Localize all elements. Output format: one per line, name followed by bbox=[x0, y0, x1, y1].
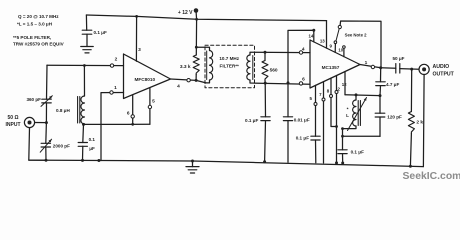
+12V terminal bbox=[178, 8, 198, 19]
node rail input-cap bbox=[81, 159, 84, 162]
wire pin5/6 bus bbox=[84, 123, 150, 125]
svg-text:6: 6 bbox=[302, 77, 305, 83]
wire pin1 bbox=[101, 93, 124, 161]
node pin2 rail bbox=[335, 161, 338, 164]
pin 1 circle bbox=[365, 60, 375, 69]
svg-text:See Note 2: See Note 2 bbox=[345, 33, 368, 38]
svg-text:TRW #25579 OR EQUIV: TRW #25579 OR EQUIV bbox=[13, 42, 65, 47]
node 560 top bbox=[264, 51, 267, 54]
svg-text:*L = 1.5 – 3.0 μH: *L = 1.5 – 3.0 μH bbox=[17, 21, 53, 26]
wire 0.1uF drop bbox=[264, 83, 266, 117]
svg-text:0.1 μF: 0.1 μF bbox=[351, 150, 364, 155]
wire tank bottom bus bbox=[343, 135, 381, 137]
capacitor 360pF variable bbox=[26, 96, 52, 107]
svg-text:3.3 k: 3.3 k bbox=[180, 64, 191, 70]
wire junction down bbox=[45, 123, 48, 144]
svg-text:2 k: 2 k bbox=[416, 119, 423, 125]
wire audio to cap bbox=[381, 67, 396, 70]
wire ground rail bbox=[29, 160, 423, 167]
op-amp MFC8010 bbox=[124, 54, 171, 99]
svg-text:MC1357: MC1357 bbox=[322, 65, 340, 70]
wire 3.3k bottom lead bbox=[195, 75, 197, 81]
filter box dashed bbox=[205, 45, 255, 87]
wire tank top bbox=[345, 94, 380, 97]
wire input gnd return bbox=[29, 128, 46, 161]
node rail center bbox=[191, 160, 194, 163]
pin 8 leg bbox=[327, 78, 337, 126]
node pin2-coil bbox=[83, 64, 86, 67]
watermark bbox=[403, 171, 460, 182]
svg-text:120 pF: 120 pF bbox=[387, 115, 402, 120]
ground (top left) bbox=[81, 47, 94, 53]
wire 0.1uF to rail bbox=[264, 121, 267, 162]
svg-text:12: 12 bbox=[342, 82, 347, 87]
node coil bottom bbox=[82, 123, 85, 126]
wire 3.3k top lead bbox=[195, 19, 197, 55]
svg-text:FILTER**: FILTER** bbox=[220, 64, 240, 69]
svg-text:+ 12 V: + 12 V bbox=[178, 10, 193, 16]
audio connector bbox=[419, 64, 429, 74]
svg-text:OUTPUT: OUTPUT bbox=[433, 72, 455, 78]
pin 10 stub bbox=[338, 46, 345, 57]
inductor L quad (variable) bbox=[346, 95, 366, 131]
node tank bottom left bbox=[341, 135, 344, 138]
wire cap to connector bbox=[400, 68, 419, 71]
pin 5 stub bbox=[148, 88, 155, 125]
wire pin3 drop bbox=[135, 16, 137, 61]
wire tank coil bottom bbox=[343, 126, 357, 150]
svg-text:50 Ω: 50 Ω bbox=[8, 115, 19, 121]
pin 12 leg bbox=[342, 72, 347, 95]
svg-text:4.7 μF: 4.7 μF bbox=[386, 82, 399, 87]
wire pin5 cap to rail bbox=[315, 140, 317, 163]
capacitor 0.1uF (IF) bbox=[245, 117, 270, 123]
wire coil top bbox=[83, 66, 85, 97]
svg-text:0.1 μF: 0.1 μF bbox=[245, 118, 258, 123]
wire 2000pF bottom bbox=[45, 147, 47, 160]
capacitor 0.1uF (tank) bbox=[338, 150, 364, 155]
pin 2 leg bbox=[335, 76, 341, 163]
svg-text:4: 4 bbox=[302, 47, 305, 53]
svg-text:2000 pF: 2000 pF bbox=[53, 144, 70, 149]
wire tank cap to rail bbox=[342, 154, 344, 163]
inductor 0.8uH bbox=[56, 96, 85, 124]
pin 14 label bbox=[309, 33, 314, 38]
capacitor 2000pF variable bbox=[40, 139, 70, 152]
svg-text:2: 2 bbox=[115, 57, 118, 63]
node pin8-pin2 bbox=[335, 125, 338, 128]
node input junction bbox=[45, 121, 48, 124]
node pin14 top bbox=[312, 29, 315, 32]
capacitor 0.1uF (input) bbox=[78, 137, 95, 151]
node bus 0.01uF bbox=[287, 81, 290, 84]
svg-text:MFC8010: MFC8010 bbox=[135, 77, 156, 82]
wire pin4 out bbox=[171, 79, 197, 80]
node pin6 join bbox=[131, 123, 134, 126]
node 2000pF gnd bbox=[45, 159, 48, 162]
capacitor 120pF bbox=[375, 96, 402, 137]
node tank right top bbox=[379, 94, 382, 97]
wire 0.01uF to rail bbox=[287, 121, 289, 163]
ground symbol (center) bbox=[186, 161, 199, 173]
node 2k top bbox=[410, 68, 413, 71]
input connector bbox=[6, 115, 35, 128]
capacitor 4.7uF bbox=[376, 68, 400, 96]
filter input winding bbox=[207, 51, 213, 81]
svg-text:0.01 μF: 0.01 μF bbox=[294, 117, 310, 122]
wire filter out bottom bbox=[250, 80, 310, 84]
resistor 3.3k bbox=[180, 55, 199, 75]
pin 4 wire circle bbox=[299, 47, 305, 55]
svg-text:0.1 μF: 0.1 μF bbox=[296, 136, 309, 141]
svg-text:*: * bbox=[347, 107, 349, 113]
svg-text:5: 5 bbox=[152, 99, 155, 105]
filter output winding bbox=[247, 55, 253, 80]
svg-text:4: 4 bbox=[177, 84, 180, 90]
pin 6 stub bbox=[127, 95, 135, 124]
svg-text:INPUT: INPUT bbox=[6, 122, 21, 128]
capacitor 0.1uF (pin5) bbox=[296, 136, 320, 141]
resistor 560 bbox=[262, 52, 278, 83]
wire audio gnd return bbox=[422, 75, 425, 167]
pin 7 leg bbox=[319, 82, 325, 163]
see note 2 label bbox=[345, 33, 368, 38]
svg-text:10.7 MHz: 10.7 MHz bbox=[219, 56, 239, 61]
svg-text:0.1 μF: 0.1 μF bbox=[94, 30, 107, 35]
svg-text:560: 560 bbox=[270, 68, 278, 74]
wire pin14 route bbox=[288, 30, 314, 117]
svg-text:1: 1 bbox=[365, 60, 368, 66]
pin 6 wire circle bbox=[299, 77, 305, 86]
svg-text:14: 14 bbox=[309, 33, 314, 38]
pin 13 drop bbox=[320, 21, 327, 48]
wire filter in top bbox=[196, 47, 209, 50]
node rail-3.3k bbox=[195, 18, 198, 21]
IC MC1357 bbox=[310, 40, 360, 88]
node tank coil top bbox=[355, 93, 358, 96]
wire cap to ground bbox=[86, 34, 88, 46]
svg-text:3: 3 bbox=[138, 47, 141, 53]
svg-text:0.1: 0.1 bbox=[89, 137, 96, 142]
pin 9 switch bbox=[329, 21, 381, 68]
svg-text:10: 10 bbox=[338, 48, 343, 53]
node pin4-3.3k bbox=[195, 79, 198, 82]
svg-text:6: 6 bbox=[127, 111, 130, 117]
wire cap to rail bbox=[82, 146, 84, 160]
node 3.3k top tap bbox=[195, 46, 198, 49]
svg-text:**5 POLE FILTER,: **5 POLE FILTER, bbox=[13, 35, 51, 40]
svg-text:Q = 20 @ 10.7 MHz: Q = 20 @ 10.7 MHz bbox=[18, 14, 59, 19]
node tank rail bbox=[341, 162, 344, 165]
pin 2 circle bbox=[110, 57, 117, 68]
note text 5 pole filter bbox=[13, 35, 65, 47]
svg-text:L: L bbox=[346, 113, 349, 118]
node rail IF-cap bbox=[263, 160, 266, 163]
svg-text:AUDIO: AUDIO bbox=[433, 64, 450, 70]
wire junction up bbox=[45, 103, 47, 123]
filter text bbox=[219, 56, 239, 68]
node 560 bottom bbox=[264, 82, 267, 85]
svg-text:0.8 μH: 0.8 μH bbox=[56, 108, 70, 113]
wire +12V rail bbox=[86, 15, 326, 21]
capacitor 50uF bbox=[392, 56, 404, 73]
pin 4 circle bbox=[177, 79, 190, 90]
resistor 2k bbox=[408, 69, 423, 166]
wire input to junction bbox=[35, 122, 47, 124]
node rail-pin3 bbox=[135, 15, 138, 18]
wire filter out top bbox=[250, 52, 310, 55]
wire 360pF top bbox=[46, 65, 49, 99]
pin 1 wire bbox=[360, 65, 381, 68]
pin 3 label bbox=[138, 47, 141, 53]
node tank bottom corner bbox=[341, 127, 344, 130]
wire pin2 bbox=[47, 64, 124, 66]
wire rail to C-bypass bbox=[85, 15, 87, 30]
svg-text:13: 13 bbox=[320, 39, 325, 44]
svg-text:50 μF: 50 μF bbox=[392, 56, 404, 61]
capacitor 0.01uF bbox=[283, 117, 309, 123]
pin 1 circle bbox=[110, 85, 117, 94]
wire pin4 to filter bbox=[196, 80, 206, 83]
pin 5 leg bbox=[309, 85, 317, 136]
note text Q/L bbox=[17, 14, 59, 26]
node audio junction bbox=[379, 66, 382, 69]
capacitor 0.1uF (top left) bbox=[82, 30, 107, 35]
wire filter in bottom bbox=[206, 80, 210, 83]
svg-text:1: 1 bbox=[114, 85, 117, 91]
audio output label bbox=[433, 64, 455, 78]
node rail pin1 bbox=[97, 159, 100, 162]
svg-text:360 pF: 360 pF bbox=[26, 97, 41, 102]
svg-text:SeekIC.com: SeekIC.com bbox=[403, 171, 460, 182]
svg-text:μF: μF bbox=[89, 146, 95, 151]
node 2k rail bbox=[409, 165, 412, 168]
wire coil gnd leg bbox=[82, 124, 85, 142]
